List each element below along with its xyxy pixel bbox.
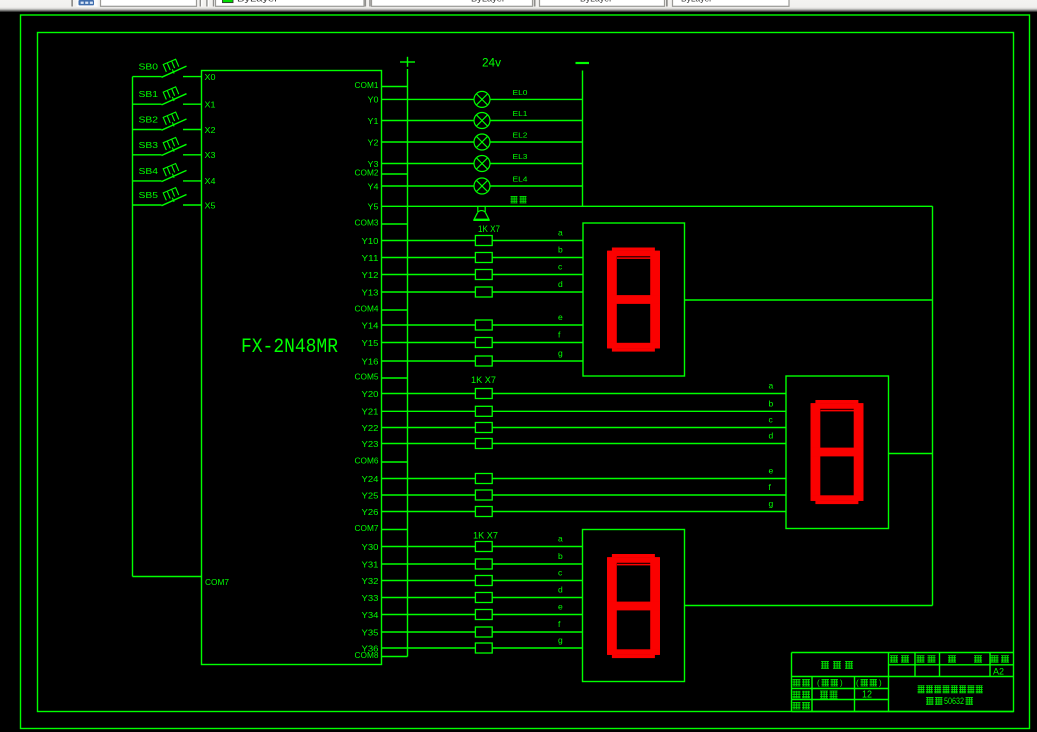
- svg-text:b: b: [558, 551, 563, 561]
- svg-text:SB4: SB4: [139, 167, 159, 176]
- svg-text:Y34: Y34: [362, 610, 379, 620]
- svg-text:COM2: COM2: [355, 168, 379, 178]
- svg-text:): ): [840, 679, 843, 688]
- svg-text:24v: 24v: [482, 56, 501, 70]
- svg-text:X5: X5: [205, 200, 216, 210]
- svg-text:d: d: [558, 279, 563, 289]
- svg-text:COM7: COM7: [355, 523, 379, 533]
- svg-text:d: d: [558, 585, 563, 595]
- svg-text:Y32: Y32: [362, 576, 379, 586]
- svg-text:X1: X1: [205, 100, 216, 110]
- svg-text:Y26: Y26: [362, 507, 379, 517]
- svg-text:Y20: Y20: [362, 389, 379, 399]
- svg-text:Y16: Y16: [362, 356, 379, 366]
- svg-text:ByLayer: ByLayer: [681, 0, 712, 4]
- svg-text:Y22: Y22: [362, 423, 379, 433]
- svg-text:d: d: [769, 431, 774, 441]
- svg-text:50632: 50632: [944, 696, 964, 706]
- svg-text:X3: X3: [205, 150, 216, 160]
- svg-text:Y23: Y23: [362, 439, 379, 449]
- svg-text:Y1: Y1: [368, 116, 379, 126]
- svg-text:1K X7: 1K X7: [471, 375, 496, 385]
- svg-text:Y25: Y25: [362, 490, 379, 500]
- svg-text:Y13: Y13: [362, 287, 379, 297]
- svg-text:SB5: SB5: [139, 191, 159, 200]
- svg-text:Y2: Y2: [368, 137, 379, 147]
- svg-text:Y33: Y33: [362, 593, 379, 603]
- svg-text:e: e: [769, 466, 774, 476]
- svg-text:A2: A2: [993, 667, 1004, 678]
- svg-text:COM3: COM3: [355, 218, 379, 228]
- svg-text:Y5: Y5: [368, 202, 379, 212]
- svg-text:SB0: SB0: [139, 63, 159, 72]
- svg-text:Y21: Y21: [362, 407, 379, 417]
- svg-text:Y12: Y12: [362, 270, 379, 280]
- svg-text:COM5: COM5: [355, 372, 379, 382]
- svg-text:COM6: COM6: [355, 456, 379, 466]
- svg-text:COM8: COM8: [355, 650, 379, 660]
- svg-text:e: e: [558, 602, 563, 612]
- svg-text:g: g: [558, 348, 563, 358]
- svg-text:b: b: [558, 245, 563, 255]
- svg-text:ByLayer: ByLayer: [580, 0, 612, 4]
- svg-text:X2: X2: [205, 125, 216, 135]
- svg-text:g: g: [558, 635, 563, 645]
- svg-text:1K X7: 1K X7: [478, 224, 500, 234]
- svg-text:a: a: [769, 381, 774, 391]
- svg-text:EL3: EL3: [513, 152, 528, 161]
- svg-text:X4: X4: [205, 176, 216, 186]
- svg-text:SB3: SB3: [139, 141, 159, 150]
- svg-text:e: e: [558, 312, 563, 322]
- svg-text:Y24: Y24: [362, 474, 379, 484]
- svg-text:Y15: Y15: [362, 338, 379, 348]
- svg-text:Y4: Y4: [368, 181, 379, 191]
- svg-text:X0: X0: [205, 72, 216, 82]
- svg-text:SB1: SB1: [139, 90, 159, 99]
- svg-text:ByLayer: ByLayer: [471, 0, 505, 4]
- svg-text:FX-2N48MR: FX-2N48MR: [241, 336, 338, 359]
- svg-text:g: g: [769, 499, 774, 509]
- svg-text:Y14: Y14: [362, 320, 379, 330]
- svg-text:Y35: Y35: [362, 627, 379, 637]
- svg-text:Y31: Y31: [362, 559, 379, 569]
- svg-text:1K X7: 1K X7: [473, 531, 498, 541]
- svg-text:SB2: SB2: [139, 116, 159, 125]
- svg-text:12: 12: [862, 690, 872, 701]
- svg-text:): ): [879, 679, 882, 688]
- svg-text:Y11: Y11: [362, 253, 379, 263]
- svg-text:Y10: Y10: [362, 236, 379, 246]
- svg-text:Y0: Y0: [368, 95, 379, 105]
- svg-text:Y30: Y30: [362, 542, 379, 552]
- svg-text:COM7: COM7: [205, 577, 229, 587]
- svg-text:a: a: [558, 228, 563, 238]
- svg-text:ByLayer: ByLayer: [237, 0, 278, 4]
- svg-text:EL4: EL4: [513, 175, 528, 184]
- svg-text:b: b: [769, 399, 774, 409]
- svg-text:(: (: [856, 679, 859, 688]
- svg-text:a: a: [558, 534, 563, 544]
- svg-text:COM1: COM1: [355, 80, 379, 90]
- svg-text:COM4: COM4: [355, 304, 379, 314]
- svg-text:EL1: EL1: [513, 109, 528, 118]
- svg-text:EL2: EL2: [513, 131, 528, 140]
- svg-text:(: (: [817, 679, 820, 688]
- svg-text:EL0: EL0: [513, 88, 528, 97]
